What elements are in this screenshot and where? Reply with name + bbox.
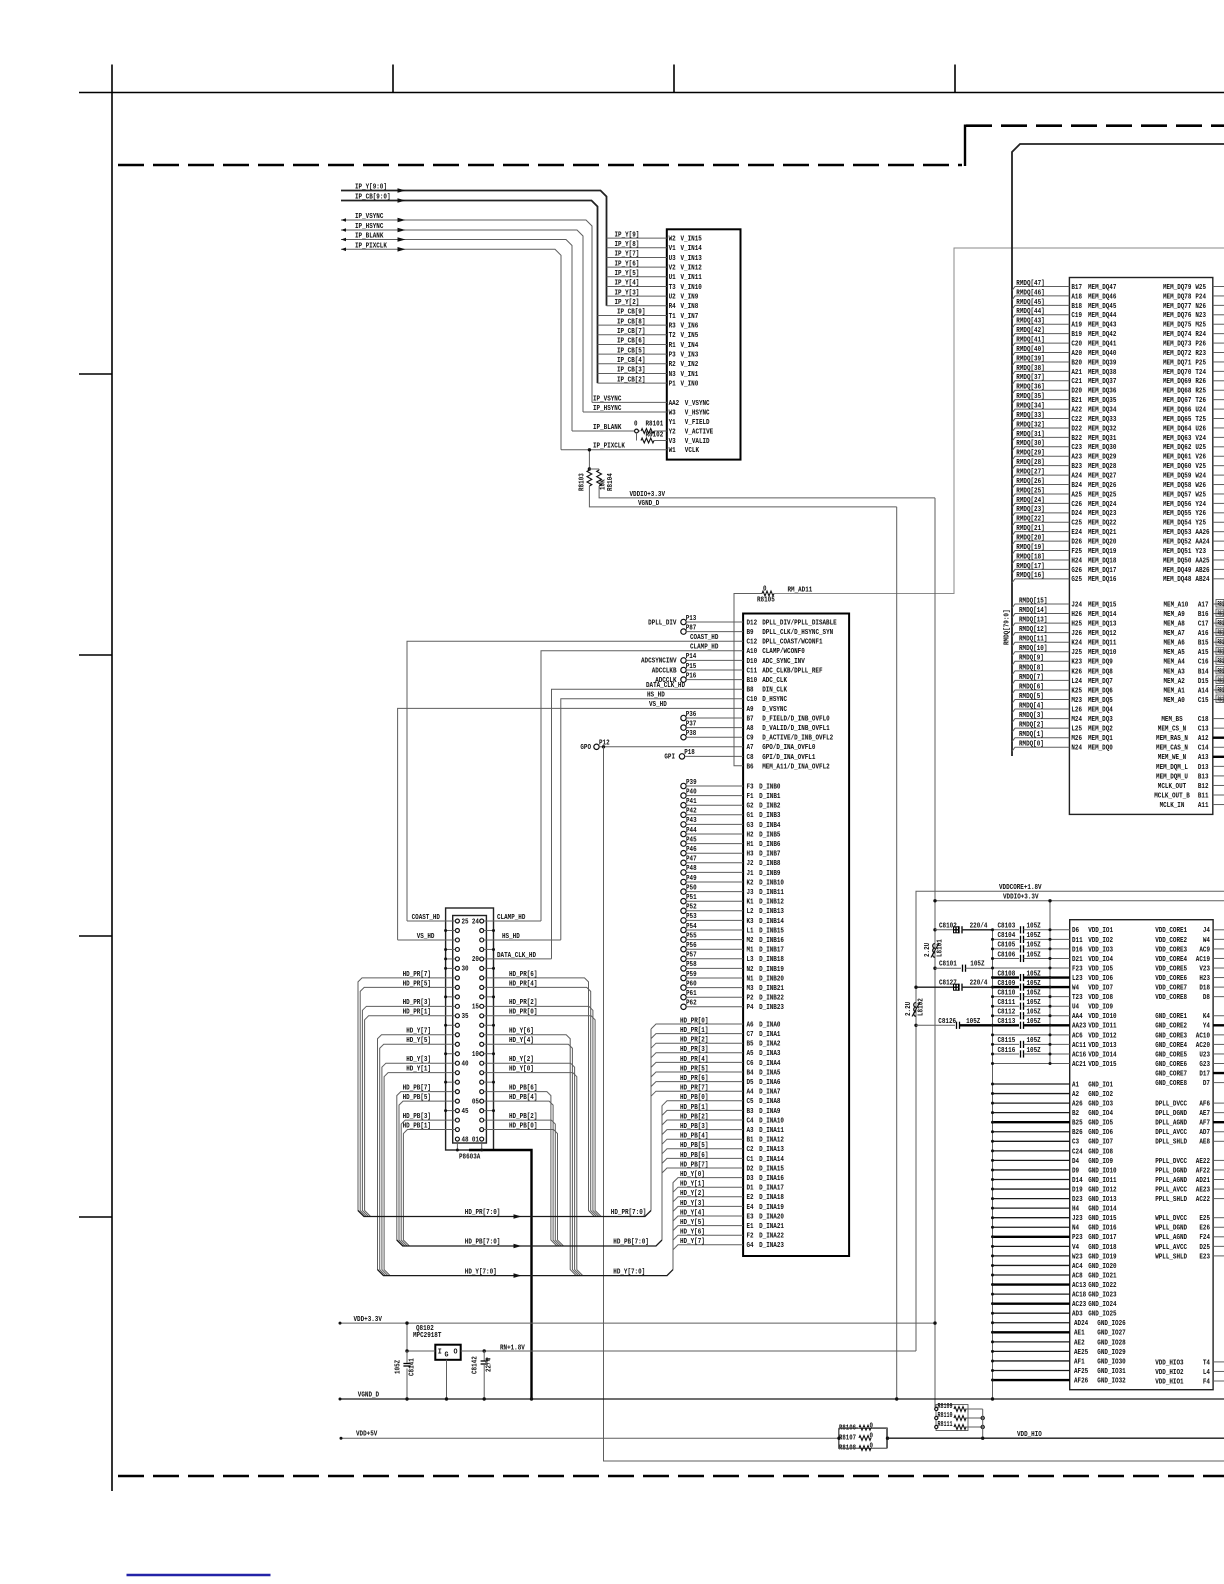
svg-text:G23: G23 bbox=[1199, 1061, 1210, 1069]
svg-text:D_INA16: D_INA16 bbox=[759, 1175, 784, 1183]
svg-text:R81: R81 bbox=[1218, 687, 1224, 695]
svg-text:F4: F4 bbox=[1203, 1378, 1210, 1386]
svg-text:D_INA4: D_INA4 bbox=[759, 1060, 780, 1068]
svg-text:HD_Y[7]: HD_Y[7] bbox=[680, 1238, 705, 1246]
net VDDIO+3.3V from R8104 bbox=[599, 486, 935, 498]
svg-text:V_IN1: V_IN1 bbox=[681, 371, 699, 379]
svg-text:R3: R3 bbox=[669, 323, 676, 331]
svg-text:HD_PB[7]: HD_PB[7] bbox=[403, 1085, 431, 1093]
connector left pin wires COAST_HD VS_HD bbox=[407, 920, 455, 922]
svg-text:P3: P3 bbox=[669, 352, 676, 360]
svg-text:D_INA22: D_INA22 bbox=[759, 1233, 784, 1241]
svg-text:VDD_IO4: VDD_IO4 bbox=[1088, 956, 1113, 964]
svg-text:W4: W4 bbox=[1072, 985, 1079, 993]
svg-text:05: 05 bbox=[472, 1098, 479, 1106]
svg-text:VDD_IO3: VDD_IO3 bbox=[1088, 946, 1113, 954]
svg-text:V_IN8: V_IN8 bbox=[681, 303, 699, 311]
svg-text:MEM_DQ47: MEM_DQ47 bbox=[1088, 284, 1116, 292]
svg-text:M23: M23 bbox=[1071, 697, 1082, 705]
svg-text:VDD_HIO2: VDD_HIO2 bbox=[1155, 1369, 1183, 1377]
svg-text:ADC_SYNC_INV: ADC_SYNC_INV bbox=[762, 658, 805, 666]
svg-text:K3: K3 bbox=[747, 918, 754, 926]
test point P37 bbox=[681, 725, 686, 730]
svg-text:AC13: AC13 bbox=[1072, 1282, 1086, 1290]
video input IC pin labels V_IN15-V_IN0 bbox=[669, 236, 714, 456]
wire IP_HSYNC entry bbox=[341, 230, 583, 412]
svg-text:B1: B1 bbox=[747, 1137, 754, 1145]
svg-text:I: I bbox=[438, 1349, 442, 1357]
svg-text:R81: R81 bbox=[1218, 610, 1224, 618]
svg-text:R8108: R8108 bbox=[839, 1445, 856, 1453]
svg-text:R8104: R8104 bbox=[607, 473, 615, 491]
svg-text:N26: N26 bbox=[1195, 303, 1206, 311]
svg-text:P25: P25 bbox=[1195, 359, 1206, 367]
connector P8603A outer box bbox=[446, 908, 494, 1150]
svg-text:MEM_DQ54: MEM_DQ54 bbox=[1163, 520, 1191, 528]
svg-text:R81: R81 bbox=[1218, 658, 1224, 666]
svg-text:C25: C25 bbox=[1071, 520, 1082, 528]
svg-text:D23: D23 bbox=[1072, 1196, 1083, 1204]
svg-text:V_IN6: V_IN6 bbox=[681, 323, 699, 331]
svg-text:AC6: AC6 bbox=[1072, 1032, 1083, 1040]
svg-text:R81: R81 bbox=[1218, 630, 1224, 638]
svg-text:R8111: R8111 bbox=[938, 1421, 953, 1429]
svg-text:RMDQ[34]: RMDQ[34] bbox=[1016, 402, 1044, 410]
svg-text:D_INA23: D_INA23 bbox=[759, 1242, 784, 1250]
svg-text:VDD_CORE8: VDD_CORE8 bbox=[1155, 994, 1187, 1002]
svg-text:L8101: L8101 bbox=[937, 939, 945, 957]
svg-text:D_INA10: D_INA10 bbox=[759, 1117, 784, 1125]
svg-text:GND_IO32: GND_IO32 bbox=[1097, 1377, 1125, 1385]
svg-text:V_FIELD: V_FIELD bbox=[685, 419, 710, 427]
svg-text:MEM_DQ18: MEM_DQ18 bbox=[1088, 557, 1116, 565]
svg-text:RMDQ[1]: RMDQ[1] bbox=[1019, 731, 1044, 739]
net RM_AD11 wire to right bbox=[774, 248, 1224, 594]
connector P8603A inner box bbox=[453, 916, 487, 1144]
svg-text:RMDQ[16]: RMDQ[16] bbox=[1016, 572, 1044, 580]
svg-text:E4: E4 bbox=[747, 1204, 754, 1212]
svg-text:HD_PB[0]: HD_PB[0] bbox=[509, 1122, 537, 1130]
svg-text:MEM_DQ5: MEM_DQ5 bbox=[1088, 697, 1113, 705]
svg-text:C26: C26 bbox=[1071, 501, 1082, 509]
wire VGND_D vertical feed bbox=[896, 507, 898, 1399]
svg-text:HD_PR[1]: HD_PR[1] bbox=[403, 1009, 431, 1017]
svg-text:R2: R2 bbox=[669, 361, 676, 369]
svg-text:20: 20 bbox=[472, 956, 479, 964]
svg-text:B23: B23 bbox=[1071, 463, 1082, 471]
svg-text:E2: E2 bbox=[747, 1194, 754, 1202]
svg-text:10: 10 bbox=[472, 1051, 479, 1059]
svg-text:D_INB1: D_INB1 bbox=[759, 793, 780, 801]
svg-text:MEM_DQ26: MEM_DQ26 bbox=[1088, 482, 1116, 490]
svg-text:C8126: C8126 bbox=[938, 1018, 956, 1026]
svg-text:P2: P2 bbox=[747, 995, 754, 1003]
svg-text:MEM_DQ53: MEM_DQ53 bbox=[1163, 529, 1191, 537]
svg-text:MEM_A11/D_INA_OVFL2: MEM_A11/D_INA_OVFL2 bbox=[762, 763, 830, 771]
svg-text:GND_IO8: GND_IO8 bbox=[1088, 1148, 1113, 1156]
svg-text:HD_Y[3]: HD_Y[3] bbox=[680, 1200, 705, 1208]
svg-text:01: 01 bbox=[472, 1136, 479, 1144]
net RN+1.8V output bbox=[461, 1350, 916, 1352]
svg-text:D_INB23: D_INB23 bbox=[759, 1004, 784, 1012]
svg-text:VDD_IO11: VDD_IO11 bbox=[1088, 1023, 1116, 1031]
revision mark blue line bottom left bbox=[127, 1574, 271, 1577]
svg-text:IP_BLANK: IP_BLANK bbox=[593, 424, 622, 432]
svg-text:RMDQ[17]: RMDQ[17] bbox=[1016, 563, 1044, 571]
svg-text:R8109: R8109 bbox=[938, 1403, 953, 1411]
svg-text:H1: H1 bbox=[747, 841, 754, 849]
svg-text:D_INB14: D_INB14 bbox=[759, 918, 784, 926]
svg-text:H23: H23 bbox=[1199, 975, 1210, 983]
wire IP_BLANK entry bbox=[341, 240, 572, 432]
svg-text:RMDQ[18]: RMDQ[18] bbox=[1016, 553, 1044, 561]
svg-text:D13: D13 bbox=[1198, 764, 1209, 772]
svg-text:IP_Y[2]: IP_Y[2] bbox=[615, 299, 640, 307]
svg-text:J24: J24 bbox=[1071, 601, 1082, 609]
svg-text:Y1: Y1 bbox=[669, 419, 676, 427]
svg-text:R1: R1 bbox=[669, 342, 676, 350]
svg-text:B5: B5 bbox=[747, 1041, 754, 1049]
svg-text:D18: D18 bbox=[1199, 985, 1210, 993]
svg-text:GND_IO5: GND_IO5 bbox=[1088, 1120, 1113, 1128]
svg-text:MEM_DQ31: MEM_DQ31 bbox=[1088, 435, 1116, 443]
svg-text:RMDQ[39]: RMDQ[39] bbox=[1016, 355, 1044, 363]
connector right pin wires CLAMP_HD HS_HD DATA_CLK_HD bbox=[484, 920, 541, 922]
svg-text:MEM_DQ71: MEM_DQ71 bbox=[1163, 359, 1191, 367]
svg-text:MEM_DQ6: MEM_DQ6 bbox=[1088, 687, 1113, 695]
svg-text:D4: D4 bbox=[1072, 1158, 1079, 1166]
svg-text:V_IN5: V_IN5 bbox=[681, 332, 699, 340]
svg-text:A7: A7 bbox=[747, 744, 754, 752]
svg-text:MEM_DQ1: MEM_DQ1 bbox=[1088, 735, 1113, 743]
svg-text:GND_IO11: GND_IO11 bbox=[1088, 1177, 1116, 1185]
svg-text:D_VSYNC: D_VSYNC bbox=[762, 706, 787, 714]
svg-text:24: 24 bbox=[472, 918, 479, 926]
svg-text:AB24: AB24 bbox=[1195, 576, 1209, 584]
svg-text:R23: R23 bbox=[1195, 350, 1206, 358]
svg-text:D_INA1: D_INA1 bbox=[759, 1031, 780, 1039]
svg-text:W2: W2 bbox=[669, 236, 676, 244]
svg-text:D_INB22: D_INB22 bbox=[759, 995, 784, 1003]
svg-text:MCLK_OUT: MCLK_OUT bbox=[1158, 783, 1186, 791]
svg-text:HD_PB[7:0]: HD_PB[7:0] bbox=[613, 1239, 649, 1247]
svg-text:MEM_DQ70: MEM_DQ70 bbox=[1163, 369, 1191, 377]
svg-text:MEM_A6: MEM_A6 bbox=[1164, 640, 1185, 648]
svg-text:C5: C5 bbox=[747, 1098, 754, 1106]
svg-text:D_INA15: D_INA15 bbox=[759, 1165, 784, 1173]
svg-text:GND_IO7: GND_IO7 bbox=[1088, 1139, 1113, 1147]
svg-text:D7: D7 bbox=[1203, 1080, 1210, 1088]
power IC pin rows GND_IO1-32 bbox=[1072, 1081, 1126, 1385]
svg-text:V_IN10: V_IN10 bbox=[681, 284, 702, 292]
node GPO junction bbox=[602, 745, 605, 748]
svg-text:DPLL_SHLD: DPLL_SHLD bbox=[1155, 1139, 1187, 1147]
test point P14 net ADCSYNCINV bbox=[681, 658, 686, 663]
svg-text:GND_IO25: GND_IO25 bbox=[1088, 1311, 1116, 1319]
svg-text:105Z: 105Z bbox=[1027, 923, 1041, 931]
bus RMDQ[79:0] with rounded corner bbox=[1012, 144, 1224, 756]
wire MEM_A11 pin to R8105 bbox=[734, 594, 762, 766]
svg-text:RMDQ[24]: RMDQ[24] bbox=[1016, 497, 1044, 505]
svg-text:D_INB12: D_INB12 bbox=[759, 899, 784, 907]
svg-text:MEM_DQ7: MEM_DQ7 bbox=[1088, 678, 1113, 686]
svg-text:VS_HD: VS_HD bbox=[417, 933, 435, 941]
svg-text:L23: L23 bbox=[1072, 975, 1083, 983]
svg-text:RMDQ[30]: RMDQ[30] bbox=[1016, 440, 1044, 448]
svg-text:DPLL_CLK/D_HSYNC_SYN: DPLL_CLK/D_HSYNC_SYN bbox=[762, 629, 833, 637]
svg-text:D_INB13: D_INB13 bbox=[759, 908, 784, 916]
svg-text:A23: A23 bbox=[1071, 454, 1082, 462]
svg-text:HD_PB[1]: HD_PB[1] bbox=[403, 1122, 431, 1130]
svg-text:MEM_DQ21: MEM_DQ21 bbox=[1088, 529, 1116, 537]
svg-text:DPLL_DIV: DPLL_DIV bbox=[648, 619, 677, 627]
svg-text:MEM_DQ22: MEM_DQ22 bbox=[1088, 520, 1116, 528]
svg-text:D_INA19: D_INA19 bbox=[759, 1204, 784, 1212]
svg-text:D_INB15: D_INB15 bbox=[759, 927, 784, 935]
test point P38 bbox=[681, 735, 686, 740]
svg-text:R24: R24 bbox=[1195, 331, 1206, 339]
svg-text:AF26: AF26 bbox=[1074, 1377, 1088, 1385]
svg-text:AC21: AC21 bbox=[1072, 1061, 1086, 1069]
svg-text:G4: G4 bbox=[747, 1242, 754, 1250]
svg-text:C16: C16 bbox=[1198, 659, 1209, 667]
svg-text:MEM_DQ28: MEM_DQ28 bbox=[1088, 463, 1116, 471]
svg-text:V_IN14: V_IN14 bbox=[681, 245, 702, 253]
svg-text:C2: C2 bbox=[747, 1146, 754, 1154]
svg-text:HD_Y[2]: HD_Y[2] bbox=[680, 1190, 705, 1198]
power IC right column VDD_HIO pins bbox=[1155, 1359, 1224, 1386]
svg-text:H25: H25 bbox=[1071, 621, 1082, 629]
svg-text:Y26: Y26 bbox=[1195, 510, 1206, 518]
svg-text:D_INA17: D_INA17 bbox=[759, 1185, 784, 1193]
svg-text:RMDQ[42]: RMDQ[42] bbox=[1016, 327, 1044, 335]
svg-text:W3: W3 bbox=[669, 409, 676, 417]
svg-text:RMDQ[40]: RMDQ[40] bbox=[1016, 346, 1044, 354]
net VDD_HIO line bbox=[888, 1437, 1224, 1439]
svg-text:VDD_IO8: VDD_IO8 bbox=[1088, 994, 1113, 1002]
svg-text:R8101: R8101 bbox=[646, 420, 664, 428]
svg-text:J1: J1 bbox=[747, 870, 754, 878]
svg-text:0: 0 bbox=[870, 1422, 874, 1430]
svg-text:D_INA11: D_INA11 bbox=[759, 1127, 784, 1135]
svg-text:MEM_DQ11: MEM_DQ11 bbox=[1088, 640, 1116, 648]
svg-text:105Z: 105Z bbox=[395, 1360, 403, 1374]
svg-text:R81: R81 bbox=[1218, 639, 1224, 647]
svg-text:D_INB19: D_INB19 bbox=[759, 966, 784, 974]
svg-text:AF25: AF25 bbox=[1074, 1368, 1088, 1376]
svg-text:AC9: AC9 bbox=[1199, 946, 1210, 954]
svg-text:C20: C20 bbox=[1071, 340, 1082, 348]
svg-text:HD_PR[0]: HD_PR[0] bbox=[680, 1017, 708, 1025]
svg-text:D_INB20: D_INB20 bbox=[759, 975, 784, 983]
svg-text:V4: V4 bbox=[1072, 1244, 1079, 1252]
main video processor IC block outline bbox=[743, 614, 849, 1257]
svg-text:V_VALID: V_VALID bbox=[685, 438, 710, 446]
svg-text:B26: B26 bbox=[1072, 1129, 1083, 1137]
svg-text:D25: D25 bbox=[1199, 1244, 1210, 1252]
svg-text:MEM_A10: MEM_A10 bbox=[1164, 601, 1189, 609]
wire GPO vertical to bottom edge bbox=[604, 747, 1224, 1461]
wire COAST_HD to main IC bbox=[407, 641, 743, 921]
svg-text:AC22: AC22 bbox=[1196, 1196, 1210, 1204]
svg-text:GND_IO24: GND_IO24 bbox=[1088, 1301, 1116, 1309]
svg-text:A6: A6 bbox=[747, 1021, 754, 1029]
bus HD_PR[7:0] bbox=[358, 1211, 651, 1217]
svg-text:VDD+3.3V: VDD+3.3V bbox=[354, 1316, 383, 1324]
svg-text:RMDQ[15]: RMDQ[15] bbox=[1019, 597, 1047, 605]
wires plain VDD_IO rows 5 12 15 bbox=[993, 967, 1070, 969]
svg-text:DPLL_DGND: DPLL_DGND bbox=[1155, 1110, 1187, 1118]
svg-text:MEM_DQ44: MEM_DQ44 bbox=[1088, 312, 1116, 320]
svg-text:MCLK_IN: MCLK_IN bbox=[1160, 802, 1185, 810]
svg-text:GND_IO1: GND_IO1 bbox=[1088, 1081, 1113, 1089]
sheet boundary dashed line bottom bbox=[118, 1475, 1224, 1478]
svg-text:A25: A25 bbox=[1071, 491, 1082, 499]
svg-text:E23: E23 bbox=[1199, 1253, 1210, 1261]
svg-text:MEM_DQ39: MEM_DQ39 bbox=[1088, 359, 1116, 367]
svg-text:C21: C21 bbox=[1071, 378, 1082, 386]
svg-text:RMDQ[4]: RMDQ[4] bbox=[1019, 702, 1044, 710]
svg-text:MEM_DQ62: MEM_DQ62 bbox=[1163, 444, 1191, 452]
svg-text:RMDQ[32]: RMDQ[32] bbox=[1016, 421, 1044, 429]
wire VS_HD to main IC bbox=[398, 708, 743, 940]
svg-text:D_INA9: D_INA9 bbox=[759, 1108, 780, 1116]
svg-text:W24: W24 bbox=[1195, 473, 1206, 481]
svg-text:IP_CB[8]: IP_CB[8] bbox=[617, 318, 645, 326]
svg-text:MEM_A1: MEM_A1 bbox=[1164, 687, 1185, 695]
svg-text:AE25: AE25 bbox=[1074, 1349, 1088, 1357]
connector P8603A pin circles bbox=[455, 919, 483, 1141]
svg-text:N24: N24 bbox=[1071, 745, 1082, 753]
svg-text:F25: F25 bbox=[1071, 548, 1082, 556]
wire IP_Y bit stubs to V_IN15-8 bbox=[607, 231, 667, 307]
svg-text:WPLL_SHLD: WPLL_SHLD bbox=[1155, 1253, 1187, 1261]
svg-text:RN+1.8V: RN+1.8V bbox=[500, 1344, 526, 1352]
svg-text:VDDIO+3.3V: VDDIO+3.3V bbox=[630, 491, 666, 499]
svg-text:MEM_DQ0: MEM_DQ0 bbox=[1088, 745, 1113, 753]
svg-text:W25: W25 bbox=[1195, 491, 1206, 499]
svg-text:MEM_DQ52: MEM_DQ52 bbox=[1163, 539, 1191, 547]
svg-text:AC16: AC16 bbox=[1072, 1051, 1086, 1059]
svg-text:V_IN11: V_IN11 bbox=[681, 274, 702, 282]
svg-text:VDD_IO5: VDD_IO5 bbox=[1088, 965, 1113, 973]
capacitor C8101 105Z bbox=[933, 967, 936, 970]
svg-text:W26: W26 bbox=[1195, 482, 1206, 490]
svg-text:K25: K25 bbox=[1071, 687, 1082, 695]
svg-text:G25: G25 bbox=[1071, 576, 1082, 584]
test point P18 net GPI bbox=[679, 754, 684, 759]
svg-text:RMDQ[22]: RMDQ[22] bbox=[1016, 516, 1044, 524]
svg-text:105Z: 105Z bbox=[1027, 1047, 1041, 1055]
svg-text:AF6: AF6 bbox=[1199, 1101, 1210, 1109]
svg-text:C14: C14 bbox=[1198, 745, 1209, 753]
svg-text:MEM_DQ12: MEM_DQ12 bbox=[1088, 630, 1116, 638]
svg-text:B9: B9 bbox=[747, 629, 754, 637]
svg-text:L25: L25 bbox=[1071, 726, 1082, 734]
svg-text:GND_IO6: GND_IO6 bbox=[1088, 1129, 1113, 1137]
svg-text:MEM_DQ56: MEM_DQ56 bbox=[1163, 501, 1191, 509]
svg-text:P26: P26 bbox=[1195, 340, 1206, 348]
svg-text:B22: B22 bbox=[1071, 435, 1082, 443]
svg-text:RMDQ[8]: RMDQ[8] bbox=[1019, 664, 1044, 672]
svg-text:A11: A11 bbox=[1198, 802, 1209, 810]
svg-text:D_INA21: D_INA21 bbox=[759, 1223, 784, 1231]
svg-text:F23: F23 bbox=[1072, 965, 1083, 973]
svg-text:D_INB18: D_INB18 bbox=[759, 956, 784, 964]
svg-text:GND_IO12: GND_IO12 bbox=[1088, 1186, 1116, 1194]
svg-text:J23: J23 bbox=[1072, 1215, 1083, 1223]
svg-text:D21: D21 bbox=[1072, 956, 1083, 964]
svg-text:HD_PB[2]: HD_PB[2] bbox=[509, 1113, 537, 1121]
svg-text:MEM_DQ16: MEM_DQ16 bbox=[1088, 576, 1116, 584]
svg-text:MEM_DQ9: MEM_DQ9 bbox=[1088, 659, 1113, 667]
svg-text:V1: V1 bbox=[669, 245, 676, 253]
page border left line bbox=[111, 65, 113, 1492]
svg-text:B6: B6 bbox=[747, 763, 754, 771]
svg-text:A14: A14 bbox=[1198, 687, 1209, 695]
svg-text:MEM_DQ23: MEM_DQ23 bbox=[1088, 510, 1116, 518]
svg-text:GND_IO2: GND_IO2 bbox=[1088, 1091, 1113, 1099]
svg-text:HD_PB[5]: HD_PB[5] bbox=[403, 1094, 431, 1102]
svg-text:R81: R81 bbox=[1218, 601, 1224, 609]
svg-text:HD_Y[7:0]: HD_Y[7:0] bbox=[465, 1268, 497, 1276]
svg-text:C8109: C8109 bbox=[998, 980, 1016, 988]
wire IP_VSYNC to V_VSYNC pin bbox=[592, 401, 667, 403]
memory IC block outline bbox=[1069, 278, 1212, 815]
svg-text:MEM_A5: MEM_A5 bbox=[1164, 649, 1185, 657]
svg-text:M26: M26 bbox=[1071, 735, 1082, 743]
svg-text:2.2U: 2.2U bbox=[924, 943, 932, 957]
svg-text:R8107: R8107 bbox=[839, 1435, 856, 1443]
svg-text:D_INB6: D_INB6 bbox=[759, 841, 780, 849]
svg-text:HD_PR[2]: HD_PR[2] bbox=[680, 1037, 708, 1045]
connector unconnected pin stubs right bbox=[484, 929, 495, 1112]
svg-text:D26: D26 bbox=[1071, 539, 1082, 547]
svg-text:MEM_DQ24: MEM_DQ24 bbox=[1088, 501, 1116, 509]
svg-text:B14: B14 bbox=[1198, 668, 1209, 676]
svg-text:R81: R81 bbox=[1218, 677, 1224, 685]
svg-text:0: 0 bbox=[870, 1433, 874, 1441]
svg-text:H3: H3 bbox=[747, 851, 754, 859]
inductor L8101 2.2U bbox=[933, 944, 935, 958]
svg-text:ADC_CLK: ADC_CLK bbox=[762, 677, 788, 685]
svg-text:VDD_HIO1: VDD_HIO1 bbox=[1155, 1378, 1183, 1386]
memory IC pin rows MEM_DQ15-0 bbox=[1071, 601, 1116, 752]
svg-text:U3: U3 bbox=[669, 255, 676, 263]
test point P16 net ADCCLK bbox=[681, 677, 686, 682]
wire IP_PIXCLK to VCLK pin bbox=[561, 449, 667, 451]
svg-text:P8603A: P8603A bbox=[459, 1154, 481, 1162]
resistor R8102 bbox=[636, 433, 638, 441]
svg-text:L26: L26 bbox=[1071, 706, 1082, 714]
svg-text:ADCSYNCINV: ADCSYNCINV bbox=[641, 658, 677, 666]
svg-text:N23: N23 bbox=[1195, 312, 1206, 320]
svg-text:F2: F2 bbox=[747, 1233, 754, 1241]
svg-text:V3: V3 bbox=[669, 438, 676, 446]
svg-text:220/4: 220/4 bbox=[970, 980, 988, 988]
test point P15 net ADCCLKB bbox=[681, 667, 686, 672]
svg-text:C8111: C8111 bbox=[998, 999, 1016, 1007]
svg-text:MEM_DQ32: MEM_DQ32 bbox=[1088, 425, 1116, 433]
svg-text:AF7: AF7 bbox=[1199, 1120, 1210, 1128]
svg-text:105Z: 105Z bbox=[1027, 942, 1041, 950]
svg-text:MEM_DQ68: MEM_DQ68 bbox=[1163, 388, 1191, 396]
svg-text:HD_PR[6]: HD_PR[6] bbox=[680, 1075, 708, 1083]
memory IC control pins bbox=[1154, 716, 1224, 810]
wire MEM_DQ79-48 right stubs bbox=[1213, 287, 1224, 579]
svg-text:MEM_DQ65: MEM_DQ65 bbox=[1163, 416, 1191, 424]
svg-text:VDD_IO1: VDD_IO1 bbox=[1088, 927, 1113, 935]
